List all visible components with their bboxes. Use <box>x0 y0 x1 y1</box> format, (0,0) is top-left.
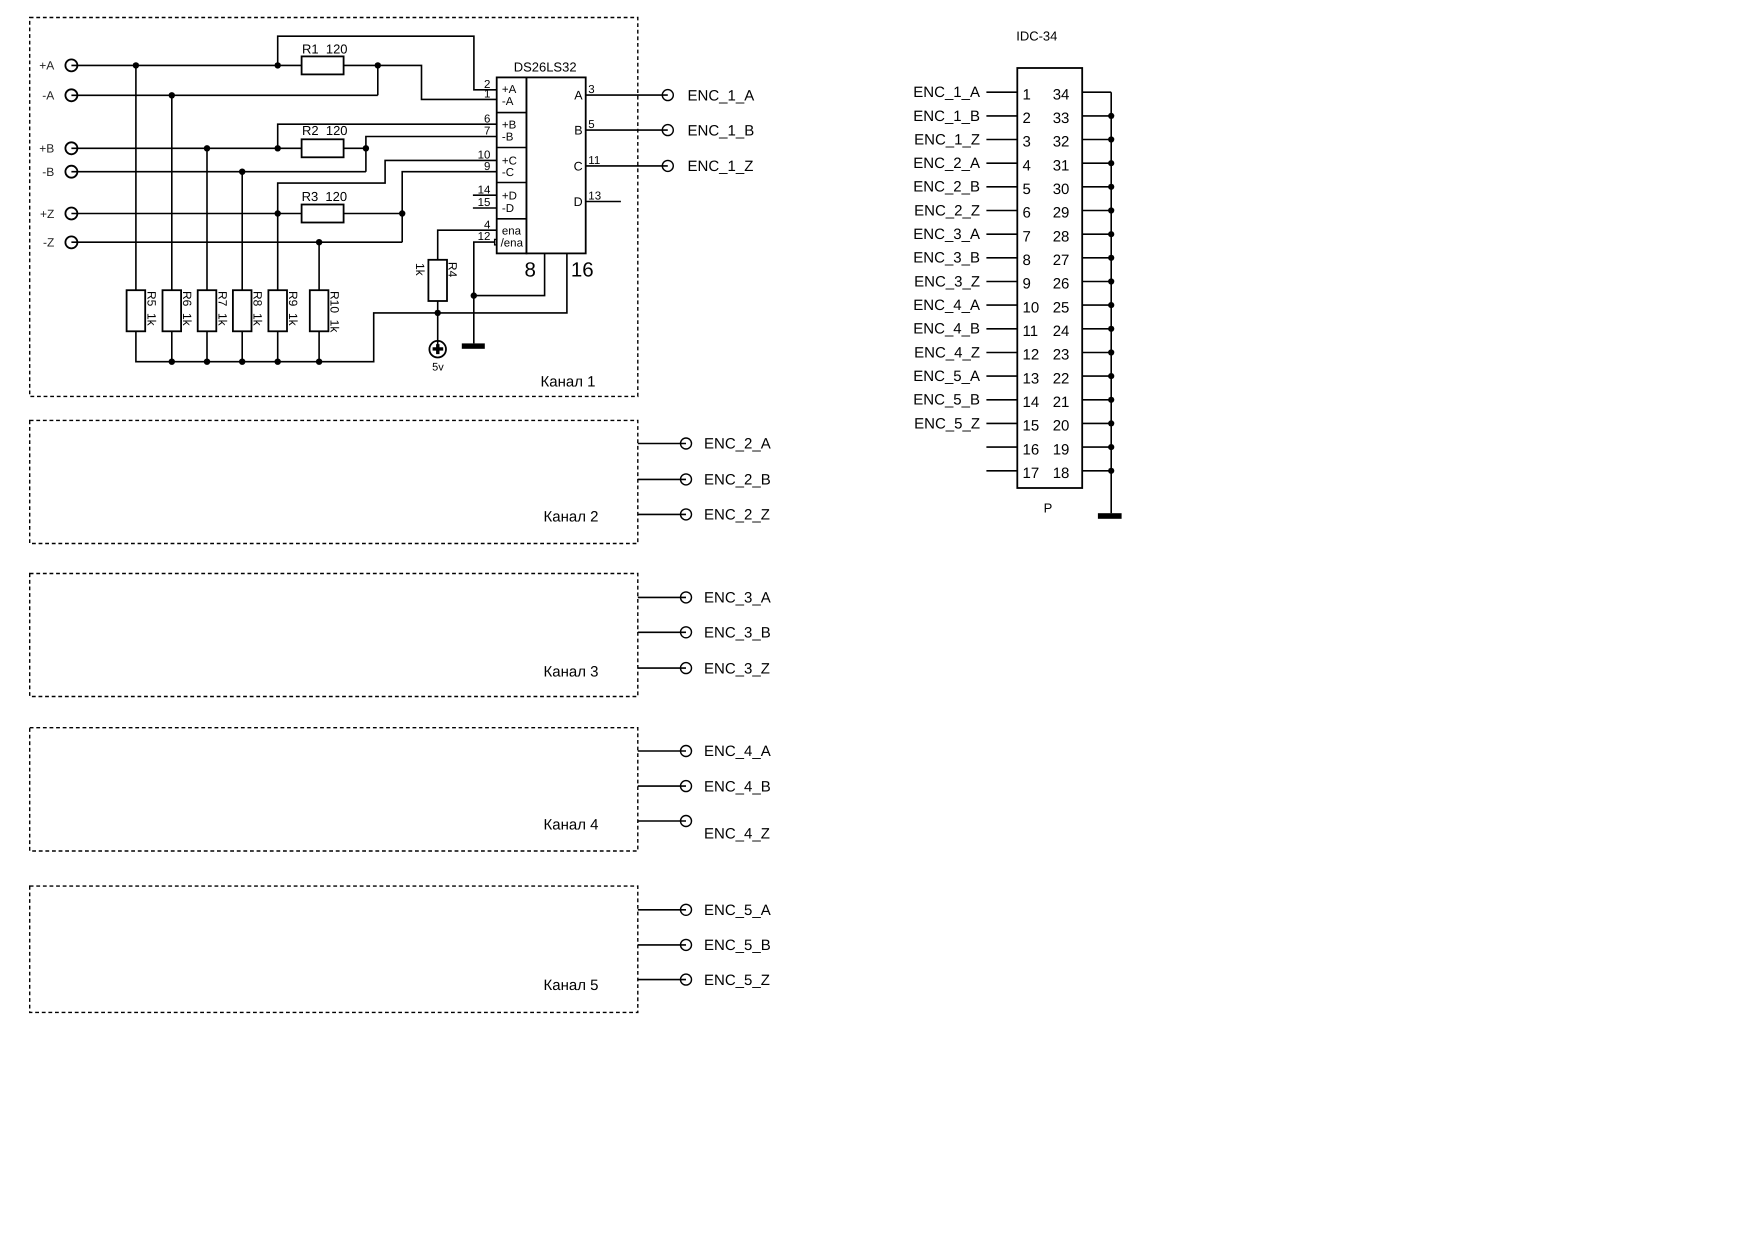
svg-text:ENC_2_A: ENC_2_A <box>913 155 980 172</box>
node ENC_5_Z output <box>638 972 770 989</box>
terminal +A <box>39 59 77 73</box>
svg-text:R3 120: R3 120 <box>302 189 348 204</box>
U1 pin numbers (left) <box>478 79 491 243</box>
connector pin row 6/29 ENC_2_Z <box>914 202 1114 221</box>
node ENC_5_A output <box>638 902 771 919</box>
resistor R2 120 <box>302 123 348 157</box>
svg-text:9: 9 <box>484 161 490 173</box>
terminal +Z <box>40 207 77 221</box>
terminal -A <box>42 89 77 103</box>
svg-text:ENC_2_B: ENC_2_B <box>913 179 980 196</box>
svg-text:ENC_1_Z: ENC_1_Z <box>688 158 754 175</box>
svg-text:Канал 1: Канал 1 <box>541 373 596 390</box>
svg-text:-A: -A <box>502 96 514 108</box>
svg-text:B: B <box>574 124 582 138</box>
svg-text:ENC_5_A: ENC_5_A <box>913 368 980 385</box>
svg-text:-Z: -Z <box>43 236 54 250</box>
svg-text:17: 17 <box>1023 465 1040 482</box>
connector pin row 7/28 ENC_3_A <box>913 226 1114 245</box>
svg-text:ENC_4_Z: ENC_4_Z <box>704 826 770 843</box>
node ENC_2_A output <box>638 436 771 453</box>
svg-text:ENC_3_Z: ENC_3_Z <box>704 660 770 677</box>
node ENC_1_Z output <box>586 158 754 175</box>
connector pin row 2/33 ENC_1_B <box>913 108 1114 127</box>
svg-text:ENC_3_A: ENC_3_A <box>913 226 980 243</box>
connector pin row 3/32 ENC_1_Z <box>914 131 1114 150</box>
svg-text:R6 1k: R6 1k <box>180 291 194 327</box>
svg-text:ena: ena <box>502 225 522 237</box>
svg-text:ENC_3_B: ENC_3_B <box>704 625 771 642</box>
connector pin row 13/22 ENC_5_A <box>913 368 1114 387</box>
wire R7 stub from signal line <box>206 148 208 290</box>
wire +B net (terminal to R2, jog to U1 pin 6) <box>71 124 496 151</box>
IC U1 DS26LS32 <box>497 59 586 253</box>
wire +A net (terminal to R1, jog to U1 pin 2) <box>71 36 496 90</box>
connector pin row 11/24 ENC_4_B <box>913 321 1114 340</box>
frame: dashed box Канал 5 <box>30 886 638 1012</box>
svg-text:5: 5 <box>1023 181 1031 198</box>
connector pin row 8/27 ENC_3_B <box>913 250 1114 269</box>
svg-text:ENC_2_A: ENC_2_A <box>704 436 771 453</box>
U1 pin 13 D output stub <box>586 201 621 203</box>
svg-text:16: 16 <box>571 259 594 282</box>
svg-text:22: 22 <box>1053 370 1070 387</box>
svg-text:+B: +B <box>39 142 54 156</box>
wire R4 bottom to 5v <box>437 301 439 345</box>
svg-text:R7 1k: R7 1k <box>215 291 229 327</box>
svg-text:R2 120: R2 120 <box>302 123 348 138</box>
svg-text:23: 23 <box>1053 347 1070 364</box>
svg-text:20: 20 <box>1053 418 1070 435</box>
node ENC_4_A output <box>638 743 771 760</box>
node ENC_2_Z output <box>638 507 770 524</box>
svg-text:34: 34 <box>1053 86 1070 103</box>
svg-text:ENC_4_A: ENC_4_A <box>704 743 771 760</box>
power 5v source <box>429 341 446 374</box>
svg-text:8: 8 <box>524 259 535 282</box>
svg-text:7: 7 <box>484 126 490 138</box>
svg-text:ENC_1_B: ENC_1_B <box>913 108 980 125</box>
svg-text:/ena: /ena <box>501 237 524 249</box>
svg-text:Канал 4: Канал 4 <box>544 817 599 834</box>
node ENC_5_B output <box>638 937 771 954</box>
svg-text:R1 120: R1 120 <box>302 41 348 56</box>
frame: dashed box Канал 3 <box>30 574 638 697</box>
svg-text:27: 27 <box>1053 252 1070 269</box>
wire R2 right / -B to U1 pin 7 <box>344 137 497 172</box>
wire -B net <box>71 169 366 175</box>
svg-text:C: C <box>574 159 583 173</box>
connector pin row 10/25 ENC_4_A <box>913 297 1114 316</box>
svg-text:14: 14 <box>1023 394 1040 411</box>
ground (IDC-34) <box>1098 513 1122 519</box>
wire U1 pin 12 /ena to ground, pin 8 to ground <box>471 239 545 343</box>
wire R5 stub from signal line <box>135 65 137 290</box>
U1 pin 14 stub <box>473 194 497 196</box>
svg-text:R9 1k: R9 1k <box>286 291 300 327</box>
svg-text:ENC_4_B: ENC_4_B <box>704 778 771 795</box>
svg-text:2: 2 <box>1023 110 1031 127</box>
svg-text:+Z: +Z <box>40 207 54 221</box>
node ENC_4_Z output <box>638 816 770 843</box>
svg-text:ENC_3_B: ENC_3_B <box>913 250 980 267</box>
svg-text:13: 13 <box>1023 370 1040 387</box>
svg-text:P: P <box>1044 501 1053 516</box>
svg-text:IDC-34: IDC-34 <box>1016 29 1057 44</box>
svg-text:26: 26 <box>1053 276 1070 293</box>
svg-text:R5 1k: R5 1k <box>144 291 158 327</box>
U1 pin 15 stub <box>473 207 497 209</box>
node ENC_4_B output <box>638 778 771 795</box>
svg-text:21: 21 <box>1053 394 1070 411</box>
svg-text:+A: +A <box>39 59 54 73</box>
svg-text:ENC_5_Z: ENC_5_Z <box>704 972 770 989</box>
connector P IDC-34 body <box>1016 29 1082 516</box>
svg-text:ENC_2_Z: ENC_2_Z <box>704 507 770 524</box>
svg-text:9: 9 <box>1023 276 1031 293</box>
svg-text:1: 1 <box>484 89 490 101</box>
svg-text:31: 31 <box>1053 157 1070 174</box>
frame: dashed box Канал 1 <box>30 18 638 397</box>
svg-text:ENC_1_Z: ENC_1_Z <box>914 131 980 148</box>
connector pin row 1/34 ENC_1_A <box>913 84 1111 103</box>
svg-text:4: 4 <box>484 219 491 231</box>
svg-text:6: 6 <box>484 113 490 125</box>
terminal +B <box>39 142 77 156</box>
svg-text:10: 10 <box>1023 299 1040 316</box>
wire R9 stub from signal line <box>277 214 279 291</box>
wire R8 stub from signal line <box>241 172 243 291</box>
svg-text:R10 1k: R10 1k <box>328 291 342 333</box>
connector pin row 5/30 ENC_2_B <box>913 179 1114 198</box>
svg-text:32: 32 <box>1053 134 1070 151</box>
svg-text:29: 29 <box>1053 205 1070 222</box>
svg-text:ENC_4_B: ENC_4_B <box>913 321 980 338</box>
svg-text:7: 7 <box>1023 228 1031 245</box>
wire -Z net <box>71 239 402 245</box>
frame: dashed box Канал 4 <box>30 728 638 851</box>
resistor R4 1k <box>413 260 460 301</box>
frame: dashed box Канал 2 <box>30 420 638 543</box>
svg-text:5v: 5v <box>432 362 444 374</box>
svg-text:11: 11 <box>1023 323 1039 340</box>
svg-text:+B: +B <box>502 119 517 131</box>
U1 pin numbers (right) <box>588 84 601 202</box>
resistor R1 120 <box>302 41 348 74</box>
resistor R7 1k <box>198 290 230 331</box>
svg-text:+C: +C <box>502 155 517 167</box>
connector pin row 4/31 ENC_2_A <box>913 155 1114 174</box>
svg-text:12: 12 <box>478 231 491 243</box>
U1 input cell labels <box>501 84 524 249</box>
svg-text:ENC_2_B: ENC_2_B <box>704 472 771 489</box>
wire R3 right / -Z to U1 pin 9 <box>344 172 497 243</box>
svg-text:4: 4 <box>1023 157 1031 174</box>
svg-text:-A: -A <box>42 89 54 103</box>
svg-text:A: A <box>574 89 583 103</box>
svg-text:ENC_4_A: ENC_4_A <box>913 297 980 314</box>
svg-text:ENC_1_A: ENC_1_A <box>688 87 755 104</box>
svg-text:-B: -B <box>42 165 54 179</box>
svg-text:16: 16 <box>1023 441 1040 458</box>
svg-text:28: 28 <box>1053 228 1070 245</box>
wire R1 right / -A to U1 pin 1 <box>344 62 497 99</box>
svg-text:ENC_4_Z: ENC_4_Z <box>914 344 980 361</box>
node ENC_2_B output <box>638 472 771 489</box>
svg-text:18: 18 <box>1053 465 1070 482</box>
svg-text:10: 10 <box>478 150 491 162</box>
connector pin row 9/26 ENC_3_Z <box>914 273 1114 292</box>
connector pin row 14/21 ENC_5_B <box>913 392 1114 411</box>
svg-text:1k: 1k <box>413 263 427 277</box>
svg-text:Канал 3: Канал 3 <box>544 664 599 681</box>
svg-text:ENC_5_Z: ENC_5_Z <box>914 415 980 432</box>
node ENC_3_Z output <box>638 660 770 677</box>
ground (channel 1) <box>462 343 485 348</box>
wire R10 stub from signal line <box>318 242 320 290</box>
svg-text:19: 19 <box>1053 441 1070 458</box>
svg-text:DS26LS32: DS26LS32 <box>514 59 577 74</box>
svg-text:-D: -D <box>502 203 514 215</box>
connector pin row 15/20 ENC_5_Z <box>914 415 1114 434</box>
svg-text:1: 1 <box>1023 86 1031 103</box>
svg-text:24: 24 <box>1053 323 1070 340</box>
svg-text:+A: +A <box>502 84 517 96</box>
svg-text:ENC_5_B: ENC_5_B <box>913 392 980 409</box>
svg-text:Канал 2: Канал 2 <box>544 509 599 526</box>
svg-text:3: 3 <box>1023 134 1031 151</box>
svg-text:ENC_1_B: ENC_1_B <box>688 122 755 139</box>
wire ground bus (pins 18-34) <box>1110 92 1112 513</box>
svg-text:D: D <box>574 195 583 209</box>
svg-text:-B: -B <box>502 132 514 144</box>
resistor R3 120 <box>302 189 348 223</box>
wire +Z net (terminal to R3, jog to U1 pin 10) <box>71 160 496 216</box>
svg-text:ENC_2_Z: ENC_2_Z <box>914 202 980 219</box>
U1 output letters A B C D <box>574 89 584 209</box>
svg-text:Канал 5: Канал 5 <box>544 977 599 994</box>
wire U1 pin 4 ena to R4 <box>438 230 497 260</box>
resistor R8 1k <box>233 290 265 331</box>
svg-text:6: 6 <box>1023 205 1031 222</box>
wire bottom bias rail (R5..R10 commons to U1 pin 16) <box>136 253 567 365</box>
svg-text:ENC_3_Z: ENC_3_Z <box>914 273 980 290</box>
svg-text:R8 1k: R8 1k <box>251 291 265 327</box>
resistor R5 1k <box>127 290 159 331</box>
connector pin row 12/23 ENC_4_Z <box>914 344 1114 363</box>
terminal -B <box>42 165 77 179</box>
resistor R9 1k <box>268 290 300 331</box>
svg-text:12: 12 <box>1023 347 1040 364</box>
node ENC_3_A output <box>638 590 771 607</box>
wire R6 stub from signal line <box>171 95 173 290</box>
svg-text:8: 8 <box>1023 252 1031 269</box>
connector pin row 17/18 <box>986 465 1114 482</box>
svg-text:ENC_5_A: ENC_5_A <box>704 902 771 919</box>
svg-text:33: 33 <box>1053 110 1070 127</box>
svg-text:ENC_3_A: ENC_3_A <box>704 590 771 607</box>
terminal -Z <box>43 236 77 250</box>
svg-text:ENC_1_A: ENC_1_A <box>913 84 980 101</box>
connector pin row 16/19 <box>986 441 1114 458</box>
svg-text:R4: R4 <box>446 262 460 278</box>
svg-text:25: 25 <box>1053 299 1070 316</box>
node ENC_1_A output <box>586 87 755 104</box>
node ENC_3_B output <box>638 625 771 642</box>
U1 pins 8 and 16 labels <box>524 259 593 282</box>
svg-text:-C: -C <box>502 167 514 179</box>
resistor R6 1k <box>163 290 195 331</box>
svg-text:+D: +D <box>502 190 517 202</box>
svg-text:30: 30 <box>1053 181 1070 198</box>
svg-text:ENC_5_B: ENC_5_B <box>704 937 771 954</box>
node ENC_1_B output <box>586 122 755 139</box>
wire -A net <box>71 92 377 98</box>
svg-text:15: 15 <box>1023 418 1040 435</box>
resistor R10 1k <box>310 290 342 333</box>
